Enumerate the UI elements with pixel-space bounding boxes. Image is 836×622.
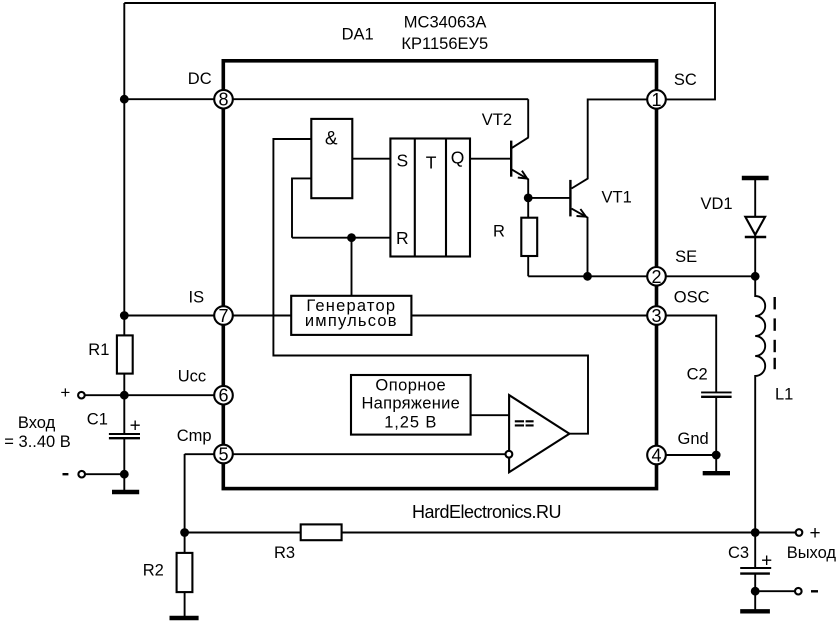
svg-text:IS: IS xyxy=(189,289,205,307)
svg-text:R1: R1 xyxy=(88,341,109,359)
svg-text:Выход: Выход xyxy=(787,544,836,562)
svg-text:+: + xyxy=(60,383,70,402)
svg-text:R: R xyxy=(493,223,505,241)
svg-text:R: R xyxy=(396,228,409,248)
svg-text:импульсов: импульсов xyxy=(305,312,398,330)
svg-text:R3: R3 xyxy=(274,544,295,562)
svg-text:SE: SE xyxy=(675,248,697,266)
svg-text:VT2: VT2 xyxy=(482,111,512,129)
svg-text:C1: C1 xyxy=(87,411,108,429)
svg-text:+: + xyxy=(761,550,772,571)
svg-text:8: 8 xyxy=(218,90,228,110)
svg-text:DA1: DA1 xyxy=(342,26,374,44)
svg-text:DC: DC xyxy=(188,70,212,88)
svg-text:+: + xyxy=(130,416,141,437)
svg-text:T: T xyxy=(426,153,437,173)
svg-text:3: 3 xyxy=(651,306,661,326)
svg-text:7: 7 xyxy=(218,306,228,326)
svg-text:1,25 В: 1,25 В xyxy=(384,414,437,432)
svg-text:Напряжение: Напряжение xyxy=(361,394,460,412)
svg-text:VD1: VD1 xyxy=(701,195,733,213)
svg-text:5: 5 xyxy=(218,445,228,465)
svg-text:C2: C2 xyxy=(687,366,708,384)
svg-text:C3: C3 xyxy=(728,544,749,562)
svg-text:Вход: Вход xyxy=(18,414,56,432)
svg-text:R2: R2 xyxy=(143,562,164,580)
svg-text:Cmp: Cmp xyxy=(177,427,212,445)
svg-text:4: 4 xyxy=(651,446,661,466)
svg-text:Ucc: Ucc xyxy=(178,368,206,386)
svg-text:Gnd: Gnd xyxy=(678,430,709,448)
svg-text:L1: L1 xyxy=(775,386,793,404)
svg-text:КР1156ЕУ5: КР1156ЕУ5 xyxy=(401,35,488,53)
svg-text:S: S xyxy=(397,150,409,170)
svg-text:MC34063A: MC34063A xyxy=(404,14,487,32)
svg-text:+: + xyxy=(809,523,820,544)
svg-text:OSC: OSC xyxy=(674,289,710,307)
svg-text:1: 1 xyxy=(651,90,661,110)
svg-text:SC: SC xyxy=(674,71,697,89)
svg-text:6: 6 xyxy=(218,386,228,406)
svg-text:2: 2 xyxy=(651,267,661,287)
svg-text:HardElectronics.RU: HardElectronics.RU xyxy=(412,502,561,522)
svg-text:= 3..40 В: = 3..40 В xyxy=(4,433,71,451)
svg-text:VT1: VT1 xyxy=(602,189,632,207)
svg-text:&: & xyxy=(325,129,338,150)
svg-text:Q: Q xyxy=(451,148,465,168)
svg-text:Опорное: Опорное xyxy=(375,376,446,394)
